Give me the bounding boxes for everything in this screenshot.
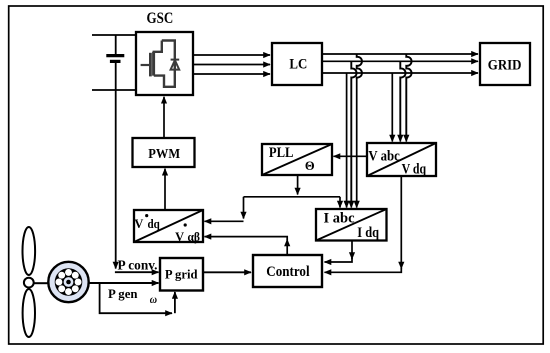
svg-text:αβ: αβ	[188, 230, 201, 244]
svg-text:P gen: P gen	[108, 287, 138, 301]
generator G center area	[64, 277, 74, 287]
Control block	[253, 255, 322, 287]
wire PWM to GSC gate	[163, 97, 165, 138]
current tap 1 phase a lead lower segment	[356, 79, 358, 206]
transform block I abc to I dq	[316, 209, 387, 241]
wire theta right branch into I abc	[339, 197, 341, 208]
wire phase b LC to GRID	[322, 60, 478, 62]
wire P grid to Control	[203, 271, 251, 273]
svg-text:PWM: PWM	[148, 146, 180, 161]
arrow Vc into V abc	[405, 134, 407, 142]
transistor Q1 (IGBT inside GSC)	[154, 41, 175, 87]
transform block V* dq to V* alpha-beta	[134, 210, 203, 244]
wire PLL output theta down to bus	[297, 175, 299, 195]
capacitor C plate 2	[110, 60, 121, 63]
wire Control output into V* block	[205, 237, 288, 240]
wire theta into V* dq block	[205, 220, 244, 222]
voltage tap 2 phase a lead with hops	[406, 54, 411, 140]
voltage tap 2 phase c lead	[391, 73, 393, 140]
wire theta bus horizontal	[244, 196, 341, 198]
wire V* block to PWM	[164, 169, 166, 210]
generator G center dot	[66, 280, 71, 285]
arrow Ib into I abc	[350, 200, 352, 208]
wire V dq into Control	[325, 268, 402, 272]
GRID box	[480, 43, 530, 85]
wind turbine blade lower	[23, 289, 35, 337]
svg-text:V: V	[175, 230, 184, 244]
arrow Va into V abc	[391, 134, 393, 142]
wire P gen up into P grid	[174, 292, 176, 313]
IGBT gate bar	[149, 53, 152, 77]
wire phase a LC to GRID	[322, 53, 478, 55]
svg-text:I abc: I abc	[324, 210, 356, 226]
wire I dq output down	[351, 241, 353, 259]
wire P conv horizontal into P grid	[115, 271, 159, 273]
capacitor C plate 1	[106, 54, 124, 57]
shaft hub to generator	[34, 282, 49, 284]
current tap 1 phase b lead with hop	[351, 61, 356, 206]
svg-text:LC: LC	[289, 57, 307, 73]
wire V abc to PLL	[334, 155, 368, 157]
wire phase b GSC to LC	[193, 64, 270, 66]
PLL block	[262, 144, 332, 175]
svg-text:GRID: GRID	[488, 57, 522, 74]
svg-text:PLL: PLL	[269, 145, 294, 161]
current tap 1 phase a lead with hops	[357, 54, 362, 79]
wire phase a GSC to LC	[193, 54, 270, 56]
svg-text:GSC: GSC	[147, 10, 174, 27]
P grid block	[160, 258, 203, 291]
wire phase c GSC to LC	[193, 73, 270, 75]
wire Control output up	[286, 240, 288, 256]
converter GSC box	[136, 32, 193, 95]
current tap 1 phase c lead	[346, 73, 348, 206]
wire P gen branch down	[100, 283, 172, 313]
generator G inner disk	[55, 268, 83, 296]
wire V dq output down	[400, 176, 402, 269]
voltage tap 2 phase b lead with hop	[400, 61, 405, 140]
IGBT gate lead	[141, 64, 149, 66]
transform block V abc to V dq	[367, 143, 436, 177]
svg-text:V abc: V abc	[368, 149, 400, 165]
wire phase c LC to GRID	[322, 72, 478, 74]
wire P conv vertical drop	[115, 90, 117, 269]
diode D1 (anti-parallel)	[171, 60, 180, 70]
shaft generator to P grid	[89, 282, 159, 284]
PWM block	[133, 138, 195, 167]
svg-text:P conv.: P conv.	[118, 257, 158, 272]
capacitor C bottom lead	[115, 63, 117, 91]
svg-text:I dq: I dq	[357, 225, 379, 241]
generator G outer ring	[48, 262, 88, 302]
svg-text:dq: dq	[148, 217, 160, 231]
svg-text:Control: Control	[266, 264, 309, 280]
DC bus top rail	[92, 34, 136, 36]
wire I dq into Control	[325, 258, 353, 262]
wire theta left branch down	[243, 197, 245, 219]
DC bus bottom rail	[92, 89, 136, 91]
svg-text:V: V	[134, 217, 143, 231]
wind turbine blade upper	[23, 227, 36, 275]
filter LC box	[272, 43, 322, 85]
svg-text:V dq: V dq	[402, 161, 427, 177]
generator G rollers	[55, 269, 81, 295]
capacitor C (DC link) top lead	[115, 35, 117, 55]
arrow Ia into I abc	[346, 200, 348, 208]
svg-text:P grid: P grid	[165, 267, 198, 281]
arrow Ic into I abc	[356, 200, 358, 208]
svg-text:ω: ω	[150, 294, 157, 306]
wind turbine hub	[24, 278, 34, 288]
arrow Vb into V abc	[399, 134, 401, 142]
svg-text:Θ: Θ	[305, 159, 315, 173]
